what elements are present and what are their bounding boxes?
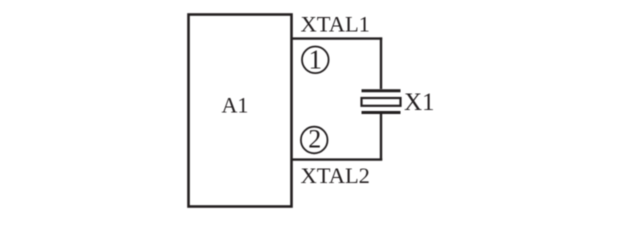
svg-text:A1: A1: [222, 93, 249, 118]
svg-text:1: 1: [308, 44, 322, 74]
svg-text:2: 2: [308, 125, 321, 154]
svg-text:XTAL1: XTAL1: [301, 12, 370, 37]
svg-text:XTAL2: XTAL2: [301, 163, 370, 188]
svg-text:X1: X1: [404, 89, 435, 116]
